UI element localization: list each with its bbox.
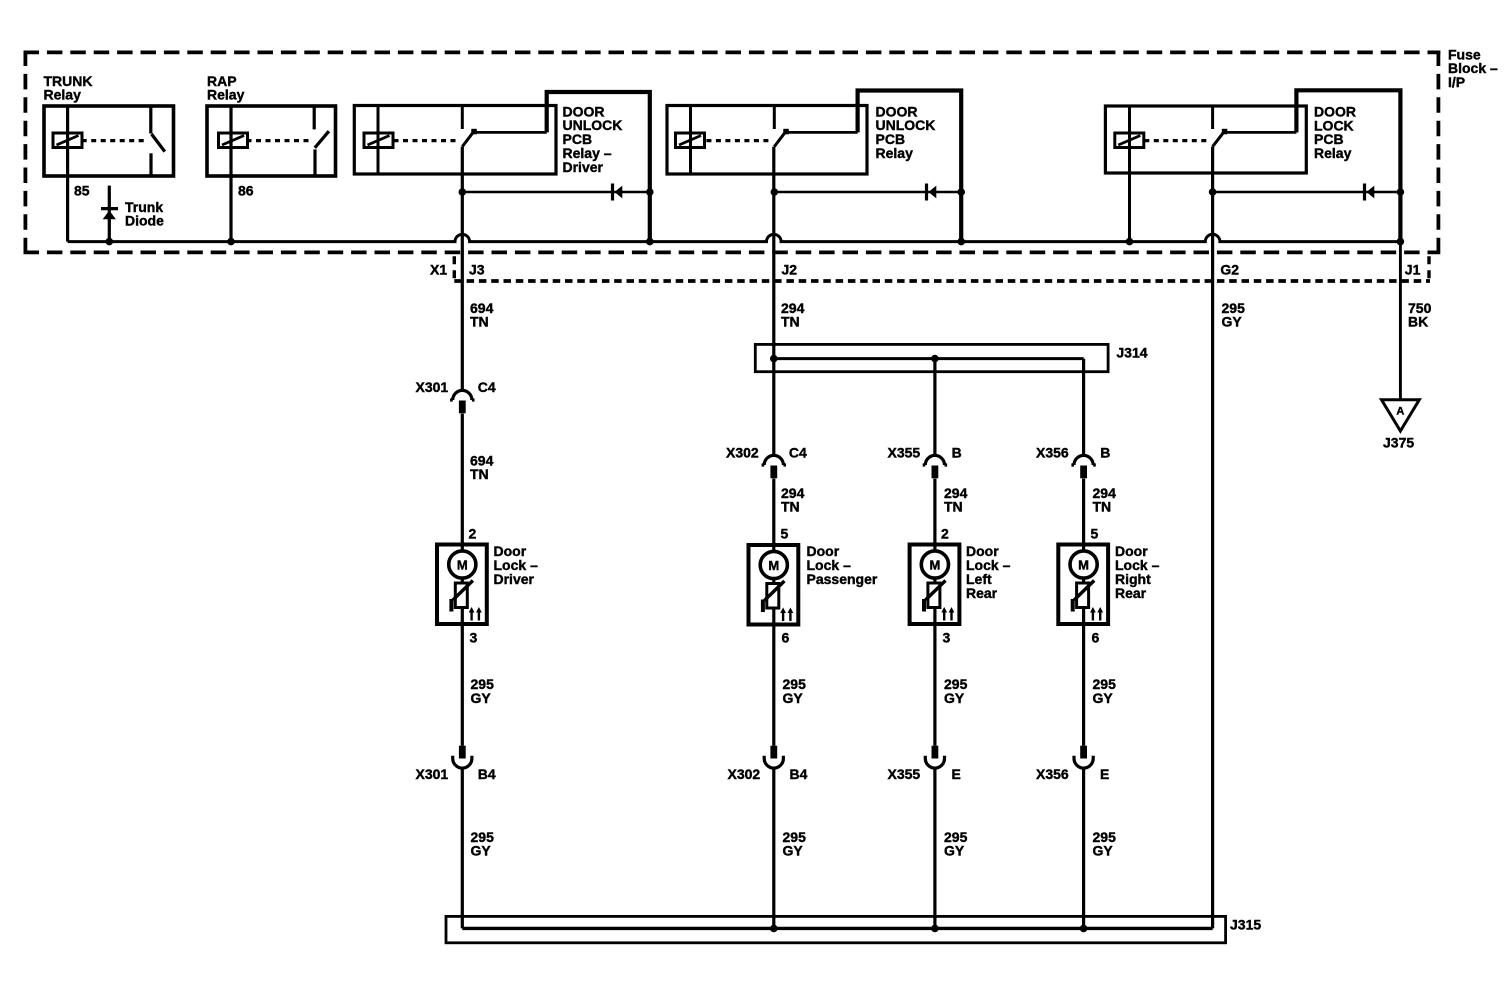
diode CR3 (unlock driver relay) (459, 184, 654, 201)
svg-text:E: E (1100, 766, 1109, 782)
wire RAP relay pin 86 to bus (231, 176, 254, 242)
junction dot relay K5 / bus (1397, 238, 1405, 246)
svg-text:5: 5 (781, 526, 789, 542)
wire 295 GY passenger pin 6 to X302 (774, 625, 806, 746)
svg-text:BK: BK (1408, 314, 1428, 330)
connector X302 C4 (726, 445, 807, 479)
connector X302 B4 (728, 746, 808, 782)
svg-text:Rear: Rear (1115, 585, 1147, 601)
svg-text:GY: GY (783, 690, 804, 706)
ground G A J375 (1382, 400, 1420, 451)
junction dot relay K3 / bus (646, 238, 654, 246)
wire 294 TN X355 to door lock left rear pin 2 (935, 479, 949, 545)
junction dot RAP / bus (227, 238, 235, 246)
splice J314 (755, 344, 1147, 371)
wire 295 GY lock relay G2 to J315 (1213, 147, 1245, 929)
svg-text:GY: GY (1093, 842, 1114, 858)
svg-text:Diode: Diode (125, 213, 164, 229)
svg-text:X301: X301 (416, 766, 449, 782)
wire 294 TN X356 to door lock right rear pin 5 (1084, 479, 1099, 545)
svg-text:86: 86 (238, 182, 254, 198)
svg-text:X301: X301 (416, 379, 449, 395)
svg-text:X355: X355 (888, 445, 921, 461)
relay K5 Door Lock PCB Relay (1105, 90, 1400, 241)
svg-text:X1: X1 (430, 262, 447, 278)
connector X355 B (888, 445, 962, 479)
svg-text:X356: X356 (1036, 445, 1069, 461)
connector separator X1 (453, 256, 456, 278)
svg-text:Passenger: Passenger (807, 571, 878, 587)
svg-text:TN: TN (781, 314, 800, 330)
relay K3 Door Unlock PCB Relay - Driver (354, 92, 650, 242)
motor M3 Door Lock - Left Rear (910, 543, 1011, 624)
svg-text:6: 6 (1092, 630, 1100, 646)
svg-text:G2: G2 (1220, 262, 1239, 278)
motor M2 Door Lock - Passenger (749, 543, 878, 625)
motor M1 Door Lock - Driver (437, 543, 538, 624)
junction dot X355 wire / J315 (931, 925, 939, 933)
wire 295 GY X301 to J315 (462, 768, 494, 928)
bus wire (battery feed inside fuse block) (68, 234, 1401, 241)
svg-text:J315: J315 (1230, 917, 1261, 933)
motor M4 Door Lock - Right Rear (1058, 543, 1159, 624)
connector X355 E (888, 746, 961, 782)
junction dot trunk diode / bus (106, 238, 114, 246)
connector boundary dotted line (454, 279, 1430, 283)
svg-text:J314: J314 (1116, 344, 1147, 360)
svg-text:GY: GY (1093, 690, 1114, 706)
svg-text:X356: X356 (1036, 766, 1069, 782)
svg-text:J3: J3 (469, 262, 485, 278)
svg-text:E: E (952, 766, 961, 782)
splice J315 (446, 916, 1261, 942)
relay K2 RAP Relay (207, 73, 336, 176)
svg-text:GY: GY (1222, 314, 1243, 330)
svg-text:2: 2 (469, 526, 477, 542)
wire 295 GY X355 to J315 (935, 768, 968, 928)
wire 294 TN J314 to X356 (1084, 359, 1116, 515)
svg-text:GY: GY (783, 842, 804, 858)
wire 694 TN driver circuit J3 to X301 (462, 147, 493, 391)
wire 295 GY driver pin 3 to X301 (462, 624, 494, 746)
svg-text:A: A (1396, 406, 1404, 418)
svg-text:I/P: I/P (1448, 74, 1465, 90)
svg-text:B: B (952, 445, 962, 461)
fuse block I/P dashed border (24, 51, 1441, 253)
svg-text:Relay: Relay (207, 87, 245, 103)
svg-text:TN: TN (1093, 499, 1112, 515)
svg-text:C4: C4 (789, 445, 807, 461)
wire 294 TN X302 to door lock passenger pin 5 (774, 479, 789, 546)
wire 295 GY right rear pin 6 to X356 (1084, 624, 1116, 746)
svg-text:B: B (1100, 445, 1110, 461)
connector X301 C4 (416, 379, 496, 414)
junction dot X356 wire / J315 (1080, 925, 1088, 933)
svg-text:GY: GY (944, 690, 965, 706)
svg-text:B4: B4 (478, 766, 496, 782)
wire lock relay coil to bus (1128, 173, 1131, 242)
svg-text:5: 5 (1091, 526, 1099, 542)
svg-text:J2: J2 (782, 262, 798, 278)
junction dot X302 wire / J315 (770, 925, 778, 933)
svg-text:3: 3 (943, 630, 951, 646)
svg-text:Relay: Relay (1314, 145, 1352, 161)
wire 295 GY left rear pin 3 to X355 (935, 624, 968, 746)
svg-text:X355: X355 (888, 766, 921, 782)
connector separator J1 (1427, 256, 1430, 278)
junction dot relay K4 / bus (957, 238, 965, 246)
wire trunk relay pin 85 to bus (68, 176, 90, 242)
svg-text:Driver: Driver (563, 159, 604, 175)
svg-text:GY: GY (471, 690, 492, 706)
connector X301 B4 (416, 746, 496, 782)
wire 294 TN passenger circuit J2 to J314 (774, 147, 805, 345)
svg-text:GY: GY (471, 842, 492, 858)
connector X356 B (1036, 445, 1110, 479)
svg-text:C4: C4 (478, 379, 496, 395)
svg-text:J1: J1 (1405, 262, 1421, 278)
connector X356 E (1036, 746, 1109, 782)
wire 295 GY X356 to J315 (1084, 768, 1116, 928)
label Fuse Block - I/P (1448, 46, 1498, 90)
svg-text:B4: B4 (790, 766, 808, 782)
svg-text:Relay: Relay (44, 87, 82, 103)
svg-text:X302: X302 (726, 445, 759, 461)
relay K4 Door Unlock PCB Relay (667, 91, 961, 242)
svg-text:Rear: Rear (966, 585, 998, 601)
wire 294 TN J314 to X302 (774, 372, 805, 515)
relay K1 TRUNK Relay (44, 73, 174, 176)
svg-text:TN: TN (944, 499, 963, 515)
svg-text:TN: TN (781, 499, 800, 515)
svg-text:6: 6 (782, 630, 790, 646)
svg-text:TN: TN (470, 314, 489, 330)
svg-text:J375: J375 (1383, 435, 1414, 451)
svg-text:Relay: Relay (876, 145, 914, 161)
wire 750 BK J1 to ground (1400, 242, 1431, 400)
wire 294 TN J314 to X355 (935, 359, 968, 515)
svg-text:85: 85 (74, 182, 90, 198)
svg-text:Driver: Driver (494, 571, 535, 587)
diode CR5 (lock relay) (1209, 184, 1404, 201)
svg-text:TN: TN (470, 466, 489, 482)
junction dot lock relay coil / bus (1126, 238, 1134, 246)
wire 694 TN X301 to door lock driver pin 2 (462, 414, 493, 545)
svg-text:X302: X302 (728, 766, 761, 782)
svg-text:3: 3 (470, 630, 478, 646)
wire 295 GY X302 to J315 (774, 768, 806, 928)
svg-text:GY: GY (944, 842, 965, 858)
diode CR4 (unlock relay) (771, 184, 966, 201)
diode CR1 Trunk Diode (101, 186, 164, 242)
svg-text:2: 2 (941, 526, 949, 542)
